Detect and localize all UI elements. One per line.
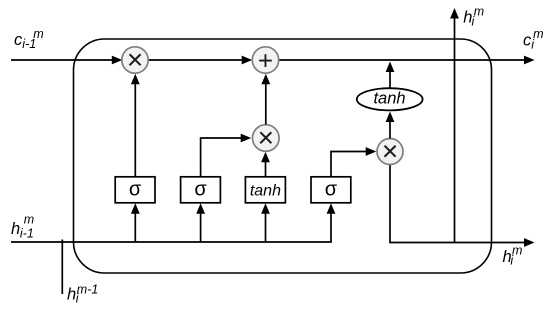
- arrowhead into M3 left: [366, 147, 377, 156]
- wire: h input line (bottom left) turning up into sigma box S4: [11, 213, 331, 243]
- svg-text:m: m: [474, 5, 484, 19]
- arrowhead c output: [524, 56, 535, 65]
- label c_i^m (top right): [523, 27, 544, 52]
- label h_i^(m-1) (bottom left): [67, 283, 98, 306]
- svg-text:×: ×: [127, 44, 143, 75]
- sigma box S2: [181, 177, 221, 203]
- svg-text:tanh: tanh: [373, 90, 405, 108]
- sigma box S1: [115, 177, 155, 203]
- svg-text:m: m: [512, 243, 522, 257]
- tanh ellipse E1: [357, 88, 423, 110]
- wire: branch up into tanh box T1: [265, 213, 267, 243]
- wire: M3 up to tanh ellipse: [389, 122, 391, 139]
- svg-text:+: +: [258, 45, 273, 75]
- svg-text:m: m: [33, 27, 43, 41]
- wire: h output from M3 down and right: [390, 165, 525, 243]
- label c_(i-1)^m: [14, 27, 44, 51]
- wire: c input line (left): [11, 59, 113, 61]
- arrowhead h output right: [524, 238, 535, 247]
- arrowhead into M1 bottom: [131, 74, 140, 85]
- sigma box S4: [311, 177, 351, 203]
- label h_i^m (top): [463, 5, 484, 29]
- svg-text:tanh: tanh: [250, 183, 281, 200]
- multiply node M3: [377, 139, 403, 165]
- wire: c line from M1 to add node A1: [148, 59, 243, 61]
- multiply node M2: [252, 125, 279, 152]
- wire: h output branch to top: [454, 19, 456, 243]
- wire: tanh ellipse up to c line: [389, 72, 391, 89]
- wire: S4 elbow to M3: [331, 152, 367, 177]
- arrowhead h output top: [450, 8, 459, 19]
- svg-text:h: h: [11, 220, 20, 238]
- arrowhead into M2 bottom: [261, 152, 270, 163]
- arrowhead into S1: [131, 203, 140, 214]
- wire: branch up into sigma box S1: [134, 213, 136, 243]
- arrowhead into A1 bottom: [261, 74, 270, 85]
- svg-text:m-1: m-1: [77, 283, 99, 297]
- arrowhead into tanh ellipse bottom: [386, 112, 395, 123]
- wire: T1 up to M2: [265, 162, 267, 177]
- svg-text:i-1: i-1: [20, 227, 34, 241]
- svg-text:h: h: [67, 286, 76, 304]
- cell body rounded rectangle: [74, 39, 492, 273]
- arrowhead into multiply node M1: [112, 56, 123, 65]
- svg-text:×: ×: [382, 136, 398, 167]
- svg-text:m: m: [533, 27, 543, 41]
- svg-text:σ: σ: [129, 179, 142, 201]
- svg-text:m: m: [24, 213, 34, 227]
- svg-text:σ: σ: [194, 179, 207, 201]
- wire: S1 up to M1: [134, 84, 136, 177]
- arrowhead into add node A1: [242, 56, 253, 65]
- arrowhead into T1: [261, 203, 270, 214]
- add node A1: [252, 47, 278, 73]
- wire: h_i^(m-1) input from below: [61, 240, 63, 295]
- wire: c output line to right: [279, 59, 525, 61]
- label h_(i-1)^m (left): [11, 213, 34, 241]
- tanh box T1: [245, 177, 285, 203]
- wire: S2 elbow to M2: [201, 138, 242, 177]
- wire: M2 up to A1: [265, 84, 267, 125]
- arrowhead into S2: [196, 203, 205, 214]
- arrowhead into M2 left: [241, 134, 252, 143]
- arrowhead into c line junction: [386, 62, 395, 73]
- label h_i^m (bottom right): [503, 243, 523, 267]
- svg-text:×: ×: [258, 122, 274, 153]
- multiply node M1: [122, 47, 148, 73]
- arrowhead into S4: [327, 203, 336, 214]
- wire: branch up into sigma box S2: [200, 213, 202, 243]
- svg-text:σ: σ: [325, 179, 338, 201]
